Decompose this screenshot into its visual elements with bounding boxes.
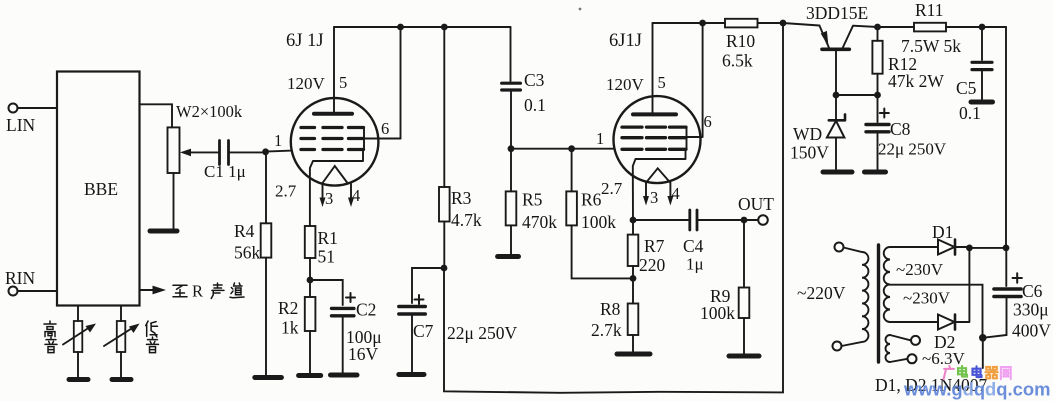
svg-text:0.1: 0.1 [524,95,546,115]
svg-text:C8: C8 [890,119,911,139]
terminal OUT [738,194,774,225]
svg-text:~220V: ~220V [797,283,846,303]
svg-text:R6: R6 [581,190,602,210]
svg-text:120V: 120V [287,74,326,93]
svg-text:6: 6 [381,119,389,138]
svg-text:R: R [192,282,203,301]
tube V2 grids [622,127,686,149]
transformer T1 primary terminals [797,243,846,351]
svg-text:~6.3V: ~6.3V [922,349,965,368]
svg-text:5: 5 [339,73,347,92]
svg-text:RIN: RIN [5,268,36,288]
node R7-R8 [630,275,637,282]
tube V2 6J1 envelope [609,31,701,183]
svg-text:C6: C6 [1022,281,1043,301]
wire HT center tap [890,285,983,337]
svg-text:400V: 400V [1012,321,1051,341]
capacitor C5 0.1 [956,27,992,123]
resistor R1 51 [305,226,338,280]
ground C2 [331,373,358,378]
svg-text:BBE: BBE [84,179,118,199]
transformer T1 primary coil [842,248,869,347]
potentiometer W2 100k [168,102,243,173]
tube V2 cathode [601,149,686,220]
svg-text:4: 4 [672,184,680,203]
tube V1 plate [287,27,352,114]
svg-text:C7: C7 [413,321,434,341]
tube V1 6J1 envelope [286,31,378,186]
watermark site name [944,366,1011,379]
svg-text:3: 3 [650,188,658,207]
svg-text:D1: D1 [932,222,953,242]
svg-text:7.5W 5k: 7.5W 5k [901,36,961,56]
transformer T1 heater coil [886,335,890,362]
terminal LIN [6,104,36,136]
node common [979,334,987,342]
node C6 top [1003,245,1010,252]
svg-text:56k: 56k [234,243,261,263]
svg-text:100k: 100k [581,212,616,232]
svg-text:5: 5 [658,73,666,92]
tube V2 plate [606,23,676,114]
heater terminal bottom [890,349,965,368]
potentiometer treble (gao yin) [44,306,96,378]
ground treble pot [69,377,88,382]
resistor R10 6.5k [722,19,783,71]
wire plate rail stage1 [334,26,511,28]
ground R5 [498,254,519,259]
svg-text:1k: 1k [281,318,299,338]
svg-text:330μ: 330μ [1013,300,1049,320]
node cathode2 [630,217,637,224]
capacitor C7 22u 250V [399,268,518,372]
capacitor C6 330u 400V [983,248,1051,341]
svg-text:1μ: 1μ [686,255,704,274]
svg-text:4.7k: 4.7k [451,210,482,230]
wire rectifier to C6 [969,247,1006,249]
svg-text:R7: R7 [644,236,665,256]
svg-text:22μ 250V: 22μ 250V [878,140,947,159]
svg-text:6: 6 [704,112,712,131]
ground R2 [299,373,321,378]
ground W2 [150,229,177,234]
svg-text:120V: 120V [606,75,645,94]
svg-text:6J 1J: 6J 1J [286,31,324,51]
svg-text:C3: C3 [524,70,545,90]
transformer T1 core [877,245,880,362]
svg-text:3DD15E: 3DD15E [806,3,868,23]
node grid2 [508,145,515,152]
svg-text:100k: 100k [700,303,735,323]
ground R8 [617,352,650,357]
wire raw B+ riser [1005,27,1007,248]
resistor R8 2.7k [591,278,638,352]
node grid1 junction [262,148,269,155]
node rail2-pin6 [699,20,706,27]
node R12 bottom [874,92,881,99]
resistor R7 220 [628,220,666,278]
resistor R9 100k [700,220,749,354]
diode D2 [934,248,969,352]
node rectifier out [966,245,973,252]
node rail1-pin6 [397,24,404,31]
ground R4 [255,375,282,380]
node rail2-B+ [780,20,787,27]
svg-text:47k 2W: 47k 2W [888,71,944,91]
BBE module U1 [57,72,140,306]
capacitor C8 22u 250V [866,95,947,169]
svg-text:R4: R4 [234,221,255,241]
arrow to R channel [140,282,245,301]
tube V2 pin6 screen lead [687,23,712,149]
tube V1 heater [320,166,361,208]
svg-text:220: 220 [639,255,666,275]
svg-text:1: 1 [596,129,604,148]
svg-text:R5: R5 [522,190,543,210]
svg-text:W2×100k: W2×100k [176,102,243,121]
tube V1 cathode [275,150,363,227]
node rail1-R3 [441,24,448,31]
transformer T1 HT secondary coil [884,247,890,322]
wire RIN to BBE [18,290,58,292]
wire HT bottom tap [890,321,938,323]
svg-text:0.1: 0.1 [959,103,981,123]
svg-text:6J1J: 6J1J [609,31,642,51]
svg-text:R3: R3 [451,188,472,208]
ground WD [823,170,852,175]
capacitor C2 100u 16V [310,280,382,373]
ground bass pot [112,377,131,382]
capacitor C1 1u [204,141,246,182]
zener WD 150V [790,95,845,169]
wire pin6 riser [400,27,402,139]
wire C1 to grid node [229,151,266,153]
svg-text:4: 4 [352,186,360,205]
ground C7 [399,372,424,377]
resistor R6 100k [566,149,633,279]
svg-text:C4: C4 [683,236,704,256]
node R6 top [568,145,575,152]
svg-text:R11: R11 [915,0,944,20]
resistor R11 7.5W 5k [878,0,1007,56]
ground C5 [971,100,993,105]
svg-text:C1 1μ: C1 1μ [204,162,246,181]
svg-text:1: 1 [274,131,282,150]
svg-text:2.7k: 2.7k [591,320,622,340]
heater terminal top [890,335,920,345]
transistor Q1 3DD15E [783,3,878,95]
svg-text:470k: 470k [522,212,557,232]
capacitor C4 1u [633,210,744,274]
svg-text:R1: R1 [318,228,338,248]
speck [579,8,582,11]
wire HT top tap [890,246,938,248]
node OUT [741,217,748,224]
svg-text:51: 51 [318,247,336,267]
terminal RIN [5,268,36,296]
svg-text:~230V: ~230V [903,289,951,308]
resistor R12 47k 2W [872,27,944,95]
svg-text:WD: WD [793,124,822,144]
svg-text:3: 3 [325,189,333,208]
svg-text:OUT: OUT [738,194,774,214]
svg-text:R8: R8 [600,299,621,319]
wire grid2 to tube2 [511,148,615,150]
capacitor C3 0.1 [502,27,546,149]
svg-text:R2: R2 [278,298,298,318]
svg-text:150V: 150V [790,143,829,163]
svg-text:R10: R10 [726,31,755,51]
resistor R5 470k [506,149,558,255]
wire grid node to tube1 pin1 [266,131,292,152]
node R12 top [874,24,881,31]
svg-text:22μ 250V: 22μ 250V [447,323,518,343]
node cathode1 [307,277,314,284]
tube V2 heater [643,168,680,207]
node C5 top [979,24,986,31]
wire W2 to ground [173,173,175,229]
wire common down [982,338,984,368]
tube V1 pin6 screen lead [364,119,401,150]
ground R9 [729,354,759,359]
svg-text:2.7: 2.7 [601,179,623,198]
potentiometer bass (di yin) [104,306,159,378]
resistor R2 1k [278,280,315,373]
tube V1 grids [301,128,364,150]
svg-text:LIN: LIN [6,115,36,135]
svg-text:16V: 16V [348,344,379,364]
resistor R3 4.7k [439,27,482,268]
svg-text:www.gdqdq.com: www.gdqdq.com [903,379,1050,400]
wire LIN to BBE [18,107,58,109]
node base [833,92,840,99]
wire BBE out to W2 [140,104,173,127]
svg-text:2.7: 2.7 [275,182,297,201]
node B+ stage1 [441,265,448,272]
svg-text:C2: C2 [356,300,376,320]
wire B+ loop [444,23,783,393]
wire base node [836,94,878,96]
svg-text:6.5k: 6.5k [722,51,753,71]
diode D1 [932,222,969,255]
svg-text:C5: C5 [956,78,977,98]
resistor R4 56k [234,152,271,375]
wire plate rail stage2 [653,22,726,24]
ground C8 [865,170,886,175]
svg-text:~230V: ~230V [896,260,944,279]
